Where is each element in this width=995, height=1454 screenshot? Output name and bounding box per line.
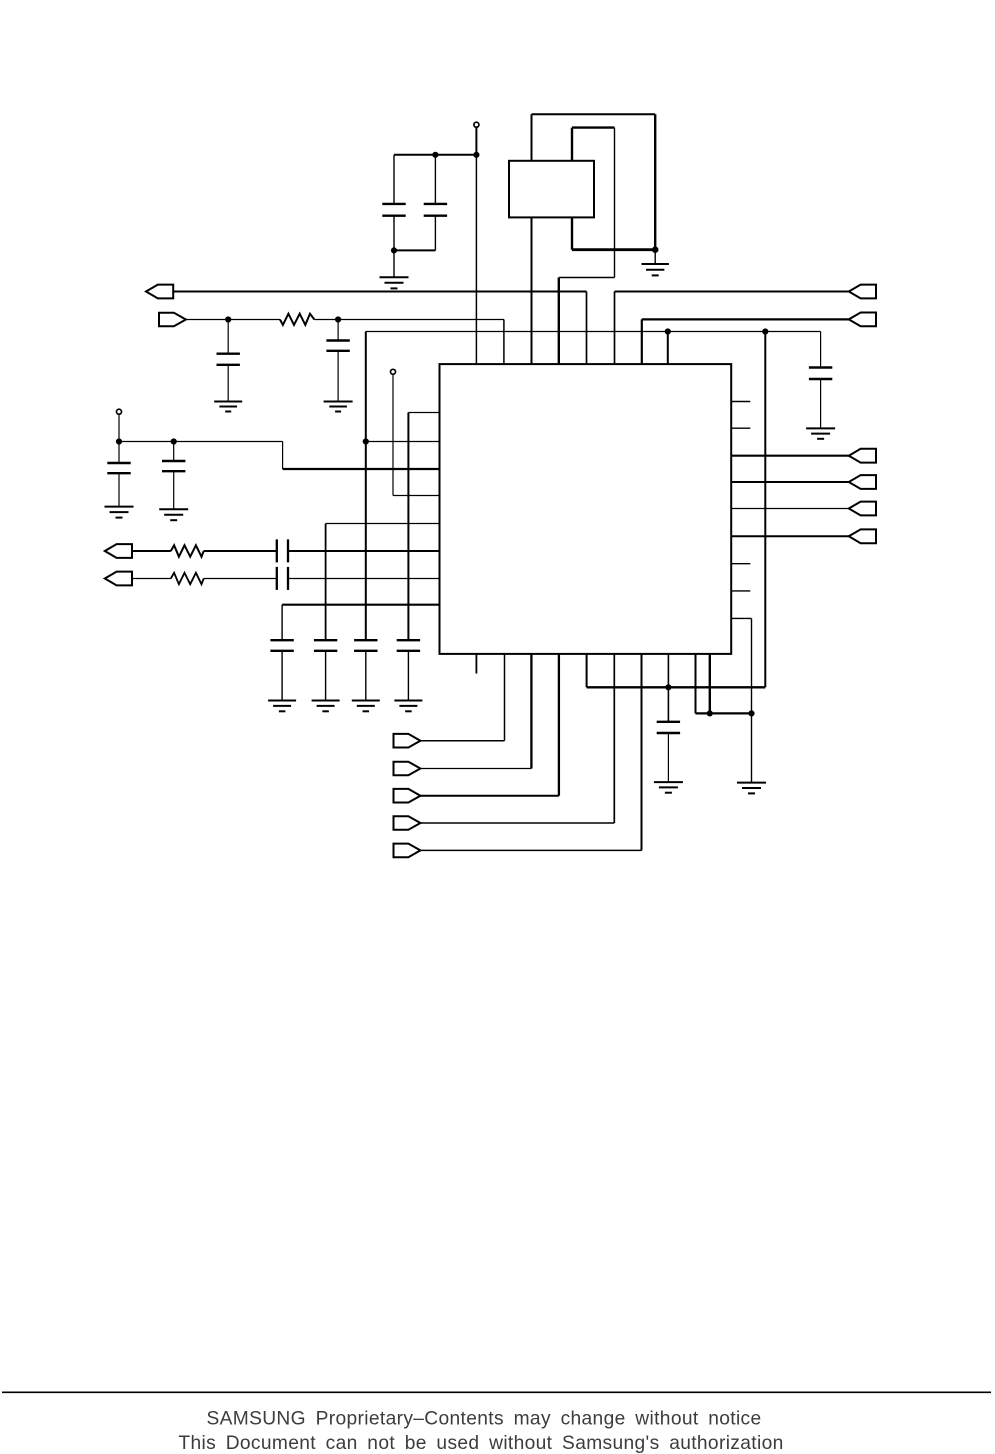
wire crystal pin1 vertical [531,114,533,364]
wire C8 to U1 pin [282,605,439,641]
ground G1 [380,250,409,288]
capacitor C4 [326,320,349,402]
port P2 [849,285,876,299]
port P12 [394,762,421,776]
resistor R3 [171,573,204,584]
wire VDD right drop [764,332,766,688]
wire N2 to U1 [283,468,440,470]
wire R2 to C12 [204,550,277,552]
port P4 [849,313,876,327]
footer text 2 [178,1433,783,1454]
ground G5 [806,428,835,438]
capacitor C7 [162,442,185,510]
port P11 [394,734,421,748]
junction VDD tap [363,439,368,444]
wire R3 to C13 [204,578,277,580]
wire N1 top [394,154,476,156]
port P8 [849,475,876,489]
pin stub right 4 [731,590,750,592]
junction N1 [474,152,479,157]
wire crystal inner loop [572,128,615,278]
wire C13 to U1 [288,578,440,580]
junction gnd rail [749,711,754,716]
port P9 [849,502,876,516]
capacitor C5 [809,332,832,429]
port P7 [849,449,876,463]
ground G13 [737,713,766,793]
ground G8 [268,701,296,712]
capacitor C11 [397,640,420,700]
wire U1 to P10 [731,535,849,537]
wire C1-C2 bottom [394,249,435,251]
wire VDD to U1 left [366,441,440,443]
capacitor C8 [270,640,293,700]
junction VDD drop [763,329,768,334]
wire U1 to P11 [420,654,504,741]
junction C7 top [171,439,176,444]
svg-text:This Document can not be used: This Document can not be used without Sa… [178,1433,783,1454]
wire crystal top loop [532,114,656,249]
wire U1 to P8 [731,481,849,483]
junction C1 bottom [391,248,396,253]
wire VDD rail [366,331,821,333]
port P5 [105,544,132,558]
ground G11 [394,701,422,712]
ground G3 [214,402,242,412]
ground G12 [654,782,683,793]
ground G9 [312,701,340,712]
wire N1 stub [475,127,477,155]
node N2 open terminal [117,409,122,414]
capacitor C12 series [277,539,288,562]
wire U1 to P14 [420,654,614,823]
junction gnd pin 2 [707,711,712,716]
capacitor C1 [382,155,405,251]
node N1 open terminal [474,122,479,127]
pin stub right 3 [731,563,750,565]
wire net D right [642,319,849,364]
wire P6 lead [132,578,171,580]
wire U1 to P7 [731,455,849,457]
junction C6 top [116,439,121,444]
wire net B right [615,292,849,365]
wire C9 to U1 pin [326,524,440,641]
crystal X1 [509,161,594,218]
pin stub right 2 [731,427,750,429]
wire C11 to U1 pin [408,413,439,641]
wire N3 to U1 [393,374,440,496]
node N3 open terminal [391,369,396,374]
pin stub bottom nc [475,654,477,674]
port P13 [394,789,421,803]
port P15 [394,844,421,858]
wire N2 stub [118,414,120,442]
wire VDD bottom pin [586,654,588,687]
capacitor C9 [314,640,337,700]
wire U1 to P9 [731,508,849,510]
junction VDD pin [665,329,670,334]
wire U1 gnd pin bottom 1 [696,654,752,714]
resistor R1 [280,314,314,325]
wire VDD left drop [365,332,367,641]
wire U1 to P13 [420,654,559,796]
wire VDD bottom rail [587,686,766,688]
footer rule [2,1391,991,1393]
wire P5 lead [132,550,171,552]
resistor R2 [171,545,204,556]
wire U1 to P15 [420,654,641,851]
wire net C left [186,320,504,365]
junction C14 top [666,685,671,690]
junction crystal gnd [652,247,658,253]
wire XTAL to U1 [559,278,615,365]
junction C3 top [226,317,231,322]
wire crystal pin2 vertical [571,128,573,250]
ground G2 [642,250,669,276]
wire N2 rail [119,442,283,470]
ground G4 [324,402,353,412]
wire C12 to U1 [288,550,440,552]
footer text 1 [206,1409,761,1430]
wire N1 to U1 top pin [475,155,477,364]
capacitor C6 [107,442,130,507]
port P10 [849,529,876,543]
wire U1 gnd pin right [731,618,751,713]
port P3 [159,313,186,327]
capacitor C10 [354,640,377,700]
pin stub right 1 [731,401,750,403]
ground G6 [105,507,134,518]
op-amp U1 main IC [440,364,732,654]
capacitor C3 [217,320,240,402]
wire U1 to P12 [420,654,531,769]
port P1 [146,285,173,299]
wire U1 gnd pin bottom 2 [709,654,711,714]
ground G7 [159,509,188,520]
wire VDD top pin [667,332,669,365]
ground G10 [352,701,380,712]
svg-text:SAMSUNG Proprietary–Contents m: SAMSUNG Proprietary–Contents may change … [206,1409,761,1430]
port P6 [105,572,132,586]
wire net A left [173,292,586,365]
junction C2 top [433,152,438,157]
port P14 [394,816,421,830]
capacitor C13 series [277,567,288,590]
junction C4 top [336,317,341,322]
capacitor C2 [424,155,447,251]
wire crystal ground rail [572,248,655,251]
capacitor C14 [657,654,680,782]
